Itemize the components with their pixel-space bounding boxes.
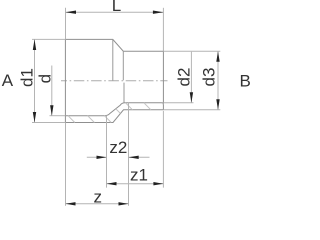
taper end edge upper bbox=[122, 51, 124, 80]
hatch bbox=[68, 103, 163, 123]
svg-text:d2: d2 bbox=[175, 68, 194, 87]
taper end edge lower bbox=[123, 83, 125, 103]
dimension d bbox=[36, 66, 66, 116]
svg-text:B: B bbox=[240, 72, 251, 91]
dimension d1 bbox=[17, 39, 65, 122]
svg-text:z2: z2 bbox=[109, 138, 127, 157]
dimension z bbox=[66, 123, 129, 207]
svg-text:L: L bbox=[112, 0, 121, 15]
inner section wall line bbox=[65, 103, 163, 116]
dimension z2 bbox=[87, 103, 150, 206]
svg-text:d: d bbox=[36, 74, 55, 83]
dimension d3 bbox=[163, 51, 220, 110]
svg-text:z: z bbox=[94, 188, 103, 207]
body outline bbox=[65, 39, 163, 122]
svg-text:d1: d1 bbox=[17, 68, 36, 87]
dimension d2 bbox=[163, 52, 193, 103]
taper start edge bbox=[112, 39, 114, 80]
svg-text:d3: d3 bbox=[200, 68, 219, 87]
svg-text:A: A bbox=[2, 71, 14, 90]
dimension z1 bbox=[107, 111, 164, 188]
dimension L bbox=[66, 0, 164, 51]
svg-text:z1: z1 bbox=[130, 166, 148, 185]
centerline bbox=[61, 80, 168, 82]
